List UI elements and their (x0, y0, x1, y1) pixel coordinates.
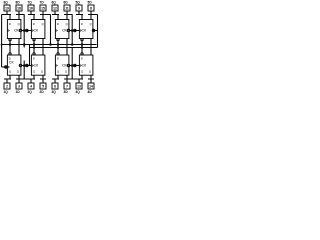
pin box 1D (16, 83, 22, 89)
wire bottom column 3 (52, 75, 76, 83)
svg-text:Q: Q (9, 70, 11, 74)
wire bottom column 2 (28, 75, 46, 83)
flip-flop FF3 box (55, 55, 69, 75)
svg-text:7D: 7D (40, 0, 45, 4)
svg-text:2: 2 (6, 85, 8, 89)
clock bubble FF8 right (19, 29, 21, 31)
input bubble FF2 top (33, 53, 35, 55)
pin box 4D (88, 83, 94, 89)
pin box 3Q (52, 83, 58, 89)
wire bus1 to bottom row drops (10, 45, 82, 54)
clock wedge FF6 (67, 29, 69, 32)
wire clock gap FF6-FF5 (69, 15, 80, 45)
svg-text:7: 7 (66, 85, 68, 89)
output bubble FF5 (81, 39, 83, 41)
flip-flop FF7 box (31, 20, 45, 39)
svg-text:16: 16 (29, 7, 33, 11)
clock wedge FF3 left edge (55, 64, 57, 67)
svg-text:11: 11 (65, 7, 69, 11)
input bubble FF4 top (81, 53, 83, 55)
wire FF7 drops (34, 39, 43, 56)
junction dot bus1 a (9, 43, 12, 46)
junction dot rail-bus1 (1, 44, 3, 46)
junction dot bus2 b (57, 46, 59, 48)
wire FF5 drops (82, 39, 91, 56)
pin box 3D (64, 83, 70, 89)
clock wedge FF7 (31, 29, 33, 32)
svg-text:7Q: 7Q (27, 0, 32, 4)
svg-text:3D: 3D (64, 90, 69, 94)
pin box 7Q (28, 5, 34, 11)
pin box 7D (40, 5, 46, 11)
svg-text:1D: 1D (16, 90, 21, 94)
svg-text:CK: CK (34, 64, 39, 68)
wire FF5 to right rail (93, 30, 98, 32)
svg-text:3Q: 3Q (51, 90, 56, 94)
svg-text:1Q: 1Q (3, 90, 8, 94)
clock wedge FF5 (79, 29, 81, 32)
flip-flop FF5 box (79, 20, 93, 39)
svg-text:Q: Q (90, 22, 92, 26)
svg-text:Q: Q (66, 22, 68, 26)
svg-text:8: 8 (90, 7, 92, 11)
svg-text:2Q: 2Q (27, 90, 32, 94)
flip-flop FF6 box (55, 20, 69, 39)
svg-text:Q: Q (41, 70, 43, 74)
junction dot bus2 a (33, 46, 35, 48)
pin box 2Q (28, 83, 34, 89)
clock wedge FF8 left edge (7, 29, 9, 32)
svg-text:12: 12 (53, 7, 57, 11)
svg-text:Q: Q (57, 70, 59, 74)
junction dot bus1 f (71, 43, 74, 46)
junction dot gap FF3-FF4 (71, 64, 74, 67)
wire left rail to FF1 (2, 66, 8, 68)
pin box 5Q (76, 5, 82, 11)
clock bubble FF5 left (74, 29, 76, 31)
svg-text:4: 4 (30, 85, 32, 89)
wire clock gap FF8-FF7 (21, 15, 32, 48)
svg-text:5D: 5D (88, 0, 93, 4)
svg-text:Q: Q (42, 22, 44, 26)
wire top column 4 (76, 11, 98, 20)
svg-text:4Q: 4Q (75, 90, 80, 94)
clock wedge FF4 (79, 64, 81, 67)
clock bubble FF3 right (67, 64, 69, 66)
wire clock bus 1 (2, 44, 97, 46)
flip-flop FF1 box (7, 55, 21, 75)
svg-text:6: 6 (54, 85, 56, 89)
pin box 8D (16, 5, 22, 11)
svg-text:15: 15 (41, 7, 45, 11)
clock bubble FF1 left side (5, 66, 7, 68)
junction dot bus1 e (57, 43, 60, 46)
svg-text:5: 5 (42, 85, 44, 89)
svg-text:Q: Q (33, 70, 35, 74)
wire bottom column 1 (4, 75, 28, 83)
svg-text:6D: 6D (64, 0, 69, 4)
wire bus2 drop to FF3-FF4 gap (71, 48, 73, 80)
pin box 5D (88, 5, 94, 11)
input bubble FF3 top (57, 53, 59, 55)
svg-text:D: D (33, 22, 35, 26)
clock bubble FF1 right (19, 64, 21, 66)
pin box 4Q (76, 83, 82, 89)
wire bottom column 4 (76, 75, 94, 83)
svg-text:CK: CK (82, 29, 87, 33)
svg-text:8Q: 8Q (3, 0, 8, 4)
pin box 1Q (4, 83, 10, 89)
clock wedge FF2 (31, 64, 33, 67)
junction dot bus1 g (81, 43, 84, 46)
svg-text:D: D (57, 56, 59, 60)
svg-text:13: 13 (77, 85, 81, 89)
wire clock bus 2 (30, 45, 98, 66)
pin box 6D (64, 5, 70, 11)
clock bubble FF7 left (26, 29, 28, 31)
clock wedge FF1 (7, 66, 9, 69)
svg-text:Q: Q (89, 70, 91, 74)
svg-text:CK: CK (9, 61, 14, 65)
svg-text:Q: Q (17, 70, 19, 74)
svg-text:2D: 2D (40, 90, 45, 94)
flip-flop FF4 box (79, 55, 93, 75)
wire top column 3 (52, 11, 73, 20)
svg-text:Q: Q (18, 22, 20, 26)
pin box 2D (40, 83, 46, 89)
svg-text:CK: CK (82, 64, 87, 68)
svg-text:D: D (9, 56, 11, 60)
svg-text:Q: Q (65, 70, 67, 74)
junction dot gap FF6-FF5 (71, 29, 74, 32)
wire top column 2 (28, 11, 51, 45)
clock bubble FF5 right side (92, 29, 94, 31)
junction dot bus2 c (81, 46, 83, 48)
svg-text:CK: CK (34, 29, 39, 33)
clock wedge FF3 (67, 64, 69, 67)
junction dot gap FF1-FF2 (23, 64, 26, 67)
svg-text:6Q: 6Q (51, 0, 56, 4)
clock wedge FF6 left edge (55, 29, 57, 32)
wire top column 1 (2, 11, 25, 20)
svg-text:9: 9 (78, 7, 80, 11)
clock wedge FF8 (19, 29, 21, 32)
svg-text:5Q: 5Q (75, 0, 80, 4)
svg-text:Q: Q (81, 70, 83, 74)
flip-flop FF8 box (7, 20, 21, 39)
svg-text:14: 14 (89, 85, 93, 89)
wire FF6 drops (58, 39, 67, 56)
wire left clock rail (1, 15, 3, 68)
wire clock gap FF1-FF2 (21, 61, 32, 80)
output bubble FF6 (57, 39, 59, 41)
pin box 8Q (4, 5, 10, 11)
wire FF8 drops (10, 39, 19, 56)
svg-text:D: D (81, 22, 83, 26)
svg-text:8D: 8D (16, 0, 21, 4)
output bubble FF7 (33, 39, 35, 41)
flip-flop FF2 box (31, 55, 45, 75)
svg-text:D: D (33, 56, 35, 60)
pin box 6Q (52, 5, 58, 11)
svg-text:D: D (57, 22, 59, 26)
junction dot gap FF8-FF7 (23, 29, 26, 32)
svg-text:D: D (9, 22, 11, 26)
junction dot bus1 b (23, 43, 26, 46)
clock bubble FF6 right (67, 29, 69, 31)
svg-text:19: 19 (5, 7, 9, 11)
svg-text:4D: 4D (88, 90, 93, 94)
input bubble FF1 top (9, 53, 11, 55)
wire right rail (97, 15, 99, 48)
svg-text:3: 3 (18, 85, 20, 89)
junction dot bus1 d (49, 43, 52, 46)
output bubble FF8 (9, 39, 11, 41)
clock bubble FF2 left (26, 64, 28, 66)
junction dot bus1 c (33, 43, 36, 46)
wire clock gap FF3-FF4 (69, 65, 80, 67)
clock bubble FF4 left (74, 64, 76, 66)
svg-text:18: 18 (17, 7, 21, 11)
svg-text:D: D (81, 56, 83, 60)
